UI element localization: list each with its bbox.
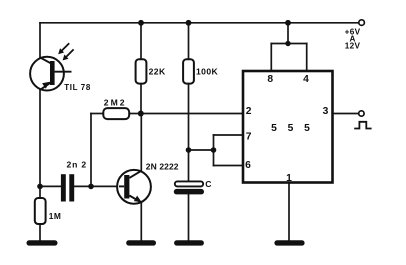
- light arrow 2 into TIL78: [63, 49, 74, 60]
- wire capacitor C bottom to ground: [188, 194, 190, 240]
- wire node D to capacitor C top: [188, 150, 190, 181]
- wire phototransistor emitter down to 2n2 node: [39, 90, 41, 187]
- node strap junction at 7-6 link: [211, 147, 217, 153]
- node rail-22K junction: [138, 20, 144, 26]
- svg-text:4: 4: [303, 74, 309, 85]
- node B junction (2n2/2M2/base): [88, 184, 94, 190]
- node rail-8/4 junction: [285, 20, 291, 26]
- node 8-4 strap junction: [285, 41, 290, 46]
- transistor Q1 TIL78 phototransistor: [30, 57, 71, 91]
- svg-text:8: 8: [267, 74, 273, 85]
- wire strap vertical joining pins 7 and 6: [213, 135, 215, 166]
- svg-text:5: 5: [288, 123, 294, 134]
- resistor R2 100K: [183, 59, 194, 83]
- wire 2M2 right lead to node C: [129, 113, 141, 115]
- wire top supply rail: [40, 22, 359, 24]
- op-amp U1 555 timer box: [243, 71, 333, 183]
- wire node C down to 2N2222 collector: [140, 114, 142, 171]
- transistor Q2 2N2222: [117, 170, 151, 204]
- resistor R1 22K: [136, 59, 147, 83]
- wire 8-4 strap horizontal: [271, 43, 306, 45]
- wire node C to IC pin 2: [141, 113, 243, 115]
- node rail-100K junction: [186, 20, 192, 26]
- capacitor C2 C (polarized): [174, 181, 204, 194]
- resistor R3 2M2: [103, 108, 129, 119]
- wire 8-4 strap up to rail: [287, 23, 289, 44]
- ground below 1M: [27, 240, 58, 245]
- svg-text:7: 7: [246, 132, 252, 143]
- wire 22K bottom lead to node C: [140, 84, 142, 114]
- svg-text:22K: 22K: [149, 66, 166, 76]
- ground below capacitor C: [174, 240, 204, 245]
- wire IC pin 3 output lead: [333, 113, 359, 115]
- wire 22K top lead from rail: [140, 23, 142, 59]
- node A junction (emitter/2n2/1M): [37, 184, 43, 190]
- svg-text:1: 1: [286, 173, 292, 184]
- wire 2M2 left lead: [91, 113, 103, 115]
- wire capacitor right plate to node B: [74, 185, 91, 187]
- terminal supply +: [359, 20, 365, 26]
- node C junction (22K/2M2/pin2/collector): [138, 111, 144, 117]
- svg-text:1M: 1M: [49, 211, 61, 221]
- wire strap to IC pin 6: [214, 165, 244, 167]
- capacitor C1 2n2: [61, 174, 74, 201]
- svg-text:6: 6: [245, 160, 251, 171]
- svg-text:100K: 100K: [196, 66, 219, 76]
- node D junction (100K/C/strap): [186, 147, 192, 153]
- light arrow 1 into TIL78: [58, 43, 69, 54]
- wire 1M top lead: [39, 186, 41, 198]
- svg-text:2M2: 2M2: [104, 97, 127, 107]
- wire IC pin 4 to strap: [306, 44, 308, 72]
- resistor R4 1M: [35, 198, 46, 224]
- wire 2N2222 emitter to ground: [140, 203, 142, 241]
- svg-text:TIL 78: TIL 78: [64, 83, 91, 92]
- ground below 2N2222 emitter: [126, 240, 156, 245]
- svg-text:C: C: [205, 179, 211, 189]
- svg-text:2: 2: [246, 106, 252, 117]
- terminal output: [359, 111, 364, 116]
- svg-text:5: 5: [304, 123, 310, 134]
- svg-text:5: 5: [271, 123, 277, 134]
- pulse waveform symbol: [354, 122, 371, 129]
- wire 100K bottom lead to node D: [188, 84, 190, 150]
- wire node D to pin 7/6 strap: [189, 149, 214, 151]
- svg-text:12V: 12V: [345, 42, 361, 51]
- svg-text:3: 3: [323, 106, 329, 117]
- wire 2n2 node to capacitor left plate: [40, 185, 61, 187]
- wire node B to 2N2222 base: [91, 185, 124, 187]
- wire strap to IC pin 7: [214, 134, 244, 136]
- svg-text:2n 2: 2n 2: [67, 160, 87, 170]
- ground below IC pin 1: [274, 240, 304, 245]
- wire left vertical (rail to phototransistor collector): [39, 23, 41, 58]
- wire IC pin 1 to ground: [288, 183, 290, 241]
- wire IC pin 8 to strap: [270, 44, 272, 72]
- wire node B up to 2M2 left: [90, 114, 92, 187]
- wire 1M bottom to ground: [39, 224, 41, 241]
- svg-text:2N 2222: 2N 2222: [146, 162, 179, 172]
- wire 100K top lead from rail: [188, 23, 190, 59]
